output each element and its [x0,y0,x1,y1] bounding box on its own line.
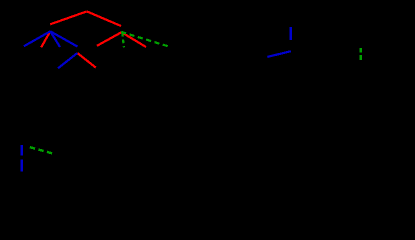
bond red steep down-left from center C1 [41,31,50,47]
hydrogen bond green dashed bottom-left diagonal [30,147,53,153]
bond red A1 down-left [97,32,122,46]
bond blue C1 steep down [50,31,60,47]
bond blue diagonal right side [267,51,290,57]
bond blue C1 down-left shallow [24,31,51,46]
hydrogen bond green dashed vertical right side [360,48,362,60]
hydrogen bond green dashed long from A1 [121,32,168,47]
bond red A1 down-right [122,32,147,47]
bond red descending from peak P1 [87,11,121,26]
bond red ascending to peak P1 [50,11,87,24]
hydrogen bond blue dashed vertical bottom-left [21,145,23,171]
hydrogen bond green dashed vertical below A1 [122,33,124,48]
bond red V2 down-right [77,53,96,68]
bond blue V2 down-left [58,53,77,68]
bond blue vertical right side [290,27,292,40]
bond blue C1 toward V2 [50,31,77,46]
